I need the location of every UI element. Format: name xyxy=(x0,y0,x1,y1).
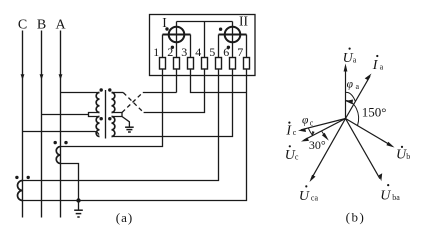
wire terminal 4 stub up xyxy=(204,22,206,58)
wire phase C bus xyxy=(22,31,24,218)
phasor Uc label xyxy=(285,145,299,163)
terminal 2 xyxy=(174,58,180,70)
phasor Ub label xyxy=(396,146,410,163)
phasor Uc vector xyxy=(301,119,346,142)
PT polarity dot primary top xyxy=(100,88,103,91)
polarity dot element II upper xyxy=(219,28,222,31)
svg-text:ca: ca xyxy=(311,193,319,202)
arrow on phase A xyxy=(59,74,63,80)
terminal 1 xyxy=(160,58,166,70)
arc angle 150 with arrow xyxy=(345,100,358,126)
wire CT-C bottom ground bus to terminal 7 xyxy=(23,69,247,201)
phasor Uba vector xyxy=(346,119,383,182)
ground lead of PT terminal b xyxy=(122,117,129,128)
phasor Uca vector xyxy=(310,119,346,183)
ground symbol at PT secondary xyxy=(125,127,134,132)
svg-text:a: a xyxy=(380,62,384,71)
svg-text:(b): (b) xyxy=(346,210,366,225)
element II current coil line xyxy=(219,34,247,36)
CT-A polarity dot right xyxy=(64,141,67,144)
wire terminal 3 stub up xyxy=(190,35,192,58)
CT-C polarity dot right xyxy=(27,176,30,179)
svg-text:a: a xyxy=(356,82,360,91)
arrow on phase C xyxy=(21,74,25,80)
CT-A polarity dot left xyxy=(54,141,57,144)
PT primary mid bracket xyxy=(89,113,100,117)
phasor Ia vector xyxy=(346,74,372,119)
op element I circle xyxy=(169,27,185,43)
svg-text:a: a xyxy=(353,55,357,64)
wire CT-A bottom to ground bus xyxy=(61,164,79,201)
phasor Uba label xyxy=(380,184,400,204)
terminal 3 xyxy=(188,58,194,70)
arc angle phi-c with arrow xyxy=(308,128,315,137)
svg-text:2: 2 xyxy=(167,45,173,59)
wire phase B bus xyxy=(41,31,43,218)
svg-text:B: B xyxy=(37,18,46,33)
phasor Uca label xyxy=(299,185,319,204)
meter box outline xyxy=(150,15,256,76)
wire voltage common top xyxy=(177,21,233,23)
wire PT terminal c to terminal 6 xyxy=(112,69,233,137)
element II voltage line xyxy=(232,22,234,58)
svg-text:b: b xyxy=(406,152,410,161)
phasor Ub vector xyxy=(346,119,395,148)
phasor Ic vector xyxy=(298,119,346,133)
phasor Ic label xyxy=(285,122,296,139)
element I current coil line xyxy=(163,34,191,36)
terminal 4 xyxy=(202,58,208,70)
polarity dot element I lower xyxy=(171,46,174,49)
wire lower voltage lead to terminal 4 xyxy=(144,69,205,113)
phasor Ua vector xyxy=(344,64,348,119)
terminal 5 xyxy=(216,58,222,70)
wire CT-A top to terminal 1 xyxy=(61,69,163,147)
svg-text:7: 7 xyxy=(237,45,243,59)
svg-text:c: c xyxy=(310,119,314,128)
svg-text:c: c xyxy=(295,152,299,161)
transformer PT core xyxy=(105,90,107,139)
svg-text:C: C xyxy=(18,18,27,33)
svg-text:3: 3 xyxy=(181,45,187,59)
svg-text:ba: ba xyxy=(392,193,400,202)
wire jumper terminal 3 to terminal 7 xyxy=(191,69,247,93)
terminal 7 xyxy=(244,58,250,70)
wire B to PT primary mid xyxy=(42,114,89,116)
arrow on phase B xyxy=(40,74,44,80)
element I voltage line xyxy=(176,22,178,58)
current transformer CT-C secondary xyxy=(18,181,23,201)
polarity dot element I upper xyxy=(165,27,168,30)
wire terminal 1 stub up xyxy=(162,35,164,58)
wire A to PT primary top xyxy=(61,92,100,94)
svg-text:U: U xyxy=(299,189,310,204)
svg-text:150°: 150° xyxy=(362,105,387,120)
wire dashed cross a-to-lower xyxy=(123,93,143,113)
phasor Ia label xyxy=(372,55,384,73)
current transformer CT-A secondary xyxy=(56,147,60,164)
PT polarity dot secondary lower xyxy=(108,117,111,120)
svg-text:I: I xyxy=(285,124,292,139)
wire terminal 5 stub up xyxy=(218,35,220,58)
svg-text:4: 4 xyxy=(195,45,201,59)
arc angle phi-a xyxy=(346,92,356,101)
label phi-a xyxy=(347,79,360,92)
svg-text:A: A xyxy=(55,18,66,33)
svg-text:I: I xyxy=(372,58,379,73)
svg-text:6: 6 xyxy=(223,45,229,59)
phasor Ua label xyxy=(343,48,357,67)
svg-text:(a): (a) xyxy=(116,210,133,225)
wire upper voltage lead to terminal 2 xyxy=(143,92,177,94)
PT polarity dot primary lower xyxy=(100,117,103,120)
svg-text:5: 5 xyxy=(209,45,215,59)
CT-C polarity dot left xyxy=(15,176,18,179)
wire terminal 7 stub up xyxy=(246,35,248,58)
svg-text:c: c xyxy=(293,128,297,137)
arc angle 30 with arrow xyxy=(321,131,329,141)
op element II circle xyxy=(225,27,241,43)
svg-text:1: 1 xyxy=(153,45,159,59)
svg-text:U: U xyxy=(380,189,391,204)
PT secondary mid bracket xyxy=(112,113,123,117)
svg-text:φ: φ xyxy=(302,115,309,127)
wire PT secondary terminal a lead xyxy=(112,92,124,94)
ground symbol at CT ground bus xyxy=(74,201,83,218)
label phi-c xyxy=(302,115,314,128)
PT polarity dot secondary top xyxy=(108,88,111,91)
transformer PT secondary windings xyxy=(112,93,115,137)
wire C to PT primary bottom xyxy=(23,132,99,135)
svg-text:φ: φ xyxy=(347,79,354,91)
wire phase A bus xyxy=(60,31,62,218)
polarity dot element II lower xyxy=(227,46,230,49)
wire terminal 2 drop xyxy=(176,69,178,93)
terminal 6 xyxy=(230,58,236,70)
wire dashed cross b-to-upper xyxy=(122,93,143,113)
svg-text:II: II xyxy=(239,14,248,29)
junction dot ground bus xyxy=(76,198,80,202)
wire CT-C top to terminal 5 xyxy=(23,69,219,181)
transformer PT primary windings xyxy=(96,93,99,137)
svg-text:30°: 30° xyxy=(309,138,326,152)
